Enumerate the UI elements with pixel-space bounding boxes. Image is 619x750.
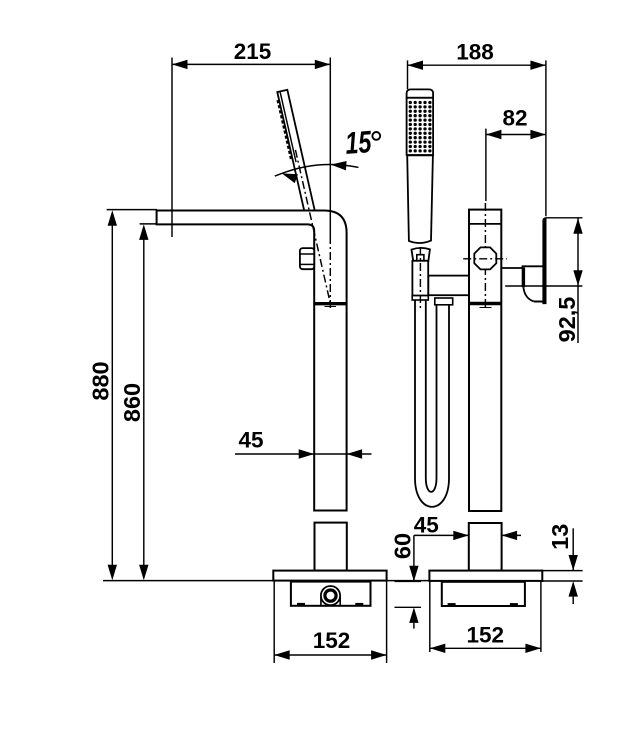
foot pad right xyxy=(510,603,518,606)
svg-text:152: 152 xyxy=(467,623,505,648)
svg-text:15: 15 xyxy=(344,124,373,161)
hand shower (side view, tilted 15deg) xyxy=(275,90,316,220)
spray dot grid xyxy=(409,101,432,153)
holder cup xyxy=(412,248,430,261)
svg-text:13: 13 xyxy=(547,524,573,550)
base body (left view) xyxy=(291,582,371,606)
column cap seam xyxy=(469,223,501,225)
hose U loop xyxy=(415,300,449,507)
column seam xyxy=(314,302,346,305)
svg-text:45: 45 xyxy=(414,513,439,538)
drain nut xyxy=(321,586,340,605)
stub bottom edge xyxy=(534,301,546,303)
svg-text:152: 152 xyxy=(313,628,351,653)
lower pipe (front view) xyxy=(469,523,502,571)
nozzle ticks xyxy=(276,100,292,160)
column vertical centerline (dash-dot) xyxy=(329,236,331,309)
svg-text:188: 188 xyxy=(456,40,494,65)
shower axis centerline (dash-dot) xyxy=(295,150,330,302)
15 degree arc xyxy=(275,165,359,177)
hose fitting right xyxy=(435,298,453,305)
stem centerline (dash-dot) xyxy=(419,247,421,311)
side plate (handle seen edge-on) xyxy=(543,218,546,304)
svg-text:60: 60 xyxy=(390,533,416,559)
knob (side view) xyxy=(300,248,314,269)
base body (front view) xyxy=(442,582,525,606)
svg-text:45: 45 xyxy=(238,428,263,453)
spout + column body xyxy=(157,211,347,511)
outlet chamfer xyxy=(523,287,534,301)
column seam (front) xyxy=(469,302,501,305)
holder arm xyxy=(428,276,469,296)
shower stem through holder xyxy=(412,261,428,296)
centerline end tick xyxy=(480,307,492,309)
floor line xyxy=(103,580,429,582)
outlet lip xyxy=(522,268,525,288)
hand shower (front view) head xyxy=(407,89,434,97)
column centerline upper (82 extension) xyxy=(485,129,487,201)
drain nut pedestal xyxy=(320,597,322,605)
knob horizontal centerline xyxy=(463,258,507,260)
knob (front view, octagon) xyxy=(474,247,496,269)
svg-text:82: 82 xyxy=(502,106,527,131)
foot pad left xyxy=(297,603,305,606)
centerline end tick xyxy=(325,306,337,308)
svg-text:880: 880 xyxy=(87,361,113,400)
svg-text:215: 215 xyxy=(234,39,272,64)
extension line right (215 / column axis) xyxy=(329,58,331,237)
svg-text:92,5: 92,5 xyxy=(554,297,580,343)
column (front view) xyxy=(469,210,501,511)
shower handle (front view) xyxy=(407,155,433,243)
column centerline (dash-dot) xyxy=(484,203,486,310)
hose fitting left xyxy=(412,296,428,300)
extension line left (215) xyxy=(171,58,173,238)
spray face line xyxy=(280,92,296,162)
foot pad left xyxy=(448,603,456,606)
foot pad right xyxy=(355,603,363,606)
spout stub (right side) underside xyxy=(501,266,543,268)
lower pipe (left view) xyxy=(315,523,347,571)
base flange (front view) xyxy=(429,571,542,581)
svg-text:860: 860 xyxy=(119,383,145,422)
base flange (left view) xyxy=(273,571,386,581)
